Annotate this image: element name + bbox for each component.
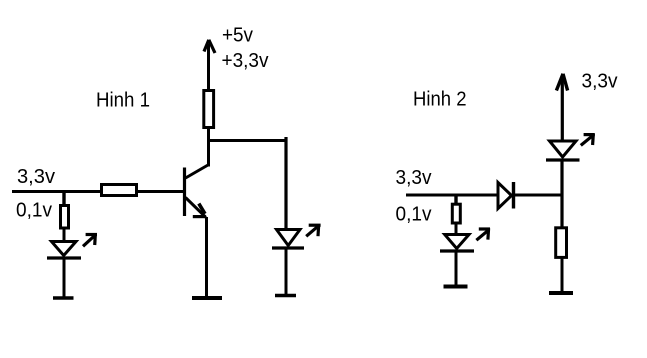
- svg-text:0,1v: 0,1v: [396, 204, 432, 226]
- LED D5: [440, 235, 474, 252]
- LED D2 light arrow: [306, 224, 320, 236]
- wire LED branch vertical (Hinh 1 right): [284, 137, 287, 229]
- resistor R2 (base series): [102, 185, 137, 196]
- wire node to R4: [454, 195, 457, 205]
- wire D5 to ground: [455, 251, 458, 287]
- wire R1 to collector node: [207, 129, 210, 167]
- LED D3: [546, 141, 580, 160]
- svg-text:Hinh 2: Hinh 2: [413, 89, 467, 111]
- wire D3 to node: [560, 160, 563, 197]
- power supply arrow +5v (Hinh 1): [204, 40, 215, 91]
- wire base input horizontal: [12, 190, 184, 193]
- svg-text:3,3v: 3,3v: [17, 166, 55, 188]
- wire diode to node: [514, 194, 564, 197]
- wire D2 to ground: [285, 248, 288, 296]
- resistor R3: [61, 206, 69, 229]
- resistor R1 (collector pull-up): [204, 91, 214, 128]
- LED D3 light arrow: [581, 134, 595, 146]
- wire node to R3: [62, 192, 65, 206]
- power supply arrow 3,3v (Hinh 2): [556, 74, 567, 141]
- LED D1 light arrow: [83, 234, 97, 247]
- wire D1 to ground: [63, 258, 66, 298]
- wire input horizontal (Hinh 2): [406, 194, 498, 197]
- ground (D1): [53, 296, 74, 299]
- ground (D5): [444, 285, 468, 289]
- resistor R4: [452, 204, 460, 223]
- wire node to R5: [560, 197, 563, 228]
- svg-text:3,3v: 3,3v: [396, 167, 432, 189]
- resistor R5: [556, 228, 567, 258]
- wire R4 to LED D5: [455, 223, 458, 234]
- transistor Q1: [185, 165, 209, 217]
- svg-text:0,1v: 0,1v: [16, 200, 52, 222]
- LED D2: [272, 230, 304, 249]
- ground (R5): [549, 291, 573, 295]
- svg-text:+3,3v: +3,3v: [222, 50, 269, 72]
- wire R5 to ground: [561, 258, 564, 293]
- LED D5 light arrow: [476, 228, 490, 240]
- svg-text:3,3v: 3,3v: [582, 71, 618, 93]
- wire collector node to LED branch (horizontal): [207, 139, 286, 142]
- svg-text:+5v: +5v: [222, 25, 253, 47]
- LED D1: [47, 242, 81, 259]
- ground (D2): [275, 294, 296, 297]
- svg-text:Hinh 1: Hinh 1: [96, 90, 150, 112]
- diode D4: [498, 182, 514, 209]
- wire R3 to LED D1: [63, 230, 66, 242]
- wire emitter vertical: [205, 217, 208, 298]
- ground (emitter): [192, 296, 222, 300]
